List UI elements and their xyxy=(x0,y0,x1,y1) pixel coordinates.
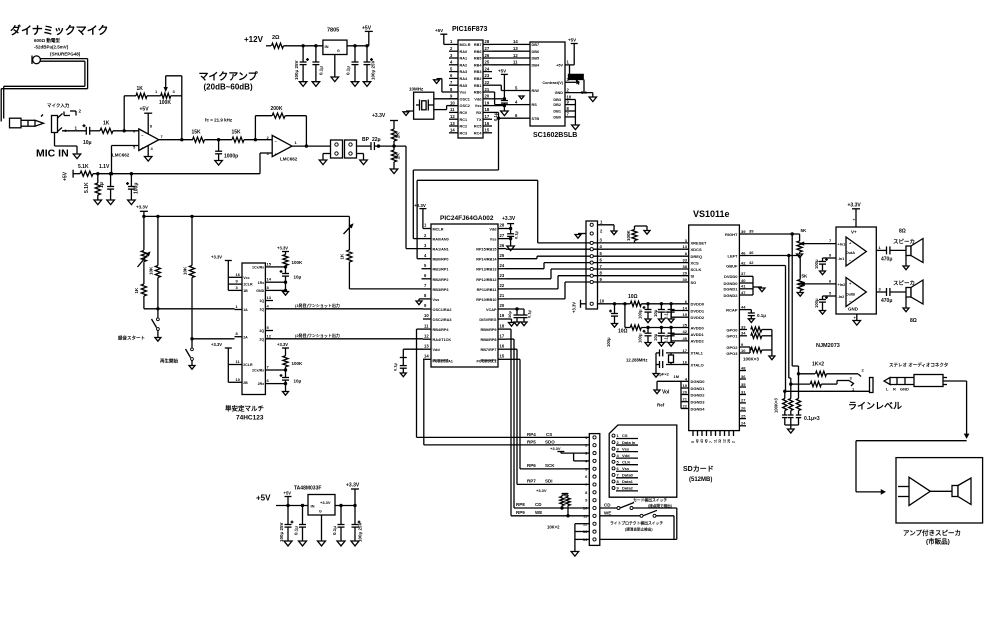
ground speaker A xyxy=(903,266,909,270)
wire OutA xyxy=(846,245,887,255)
svg-text:+3.3V: +3.3V xyxy=(536,488,547,493)
svg-text:100μ 25V: 100μ 25V xyxy=(371,60,376,80)
svg-text:34: 34 xyxy=(741,331,746,336)
svg-text:+In1: +In1 xyxy=(838,243,846,247)
svg-text:10Ω: 10Ω xyxy=(618,329,628,335)
svg-text:(512MB): (512MB) xyxy=(689,477,712,483)
svg-text:RB8/RP8: RB8/RP8 xyxy=(480,338,496,342)
ground cap out1 xyxy=(351,82,359,87)
wire jack to cap xyxy=(62,130,86,132)
resistor 10ohm DVDD xyxy=(628,294,641,306)
resistor 200K feedback xyxy=(271,106,286,118)
svg-text:RP8: RP8 xyxy=(516,502,525,507)
wire DVDD supply xyxy=(598,302,631,305)
svg-text:13: 13 xyxy=(424,343,429,348)
svg-text:1000p: 1000p xyxy=(224,154,238,160)
capacitor 100uF njm in2 xyxy=(814,291,844,311)
svg-text:再生開始: 再生開始 xyxy=(160,358,178,365)
svg-text:GND: GND xyxy=(900,387,909,392)
svg-text:38: 38 xyxy=(683,264,688,269)
svg-text:10Ω: 10Ω xyxy=(628,294,638,300)
capacitor 1000p xyxy=(215,140,238,161)
capacitor 470uF A xyxy=(881,246,906,262)
svg-text:OSC2: OSC2 xyxy=(460,104,470,108)
svg-text:21: 21 xyxy=(683,397,688,402)
svg-text:27: 27 xyxy=(485,46,490,51)
resistors 10Kx2 pullup xyxy=(536,488,570,530)
svg-text:fc = 21.9 kHz: fc = 21.9 kHz xyxy=(205,118,233,123)
svg-text:AVDD1: AVDD1 xyxy=(691,332,705,337)
svg-text:+5V: +5V xyxy=(256,494,271,503)
ground header J3 xyxy=(357,154,368,165)
svg-text:47: 47 xyxy=(741,290,746,295)
wire LCD DB3-DB0 to ground xyxy=(565,94,575,125)
svg-text:CD: CD xyxy=(604,503,611,508)
svg-text:CS: CS xyxy=(622,433,628,438)
svg-text:DB6: DB6 xyxy=(532,50,540,54)
svg-text:RB2: RB2 xyxy=(474,77,482,81)
svg-text:+3.3V: +3.3V xyxy=(136,205,148,210)
svg-text:39: 39 xyxy=(749,229,754,234)
svg-text:録音スタート: 録音スタート xyxy=(118,335,145,342)
svg-text:20: 20 xyxy=(500,303,505,308)
resistor 10K pullup1 xyxy=(149,216,161,310)
svg-text:10K: 10K xyxy=(183,266,188,275)
wire DGND bracket xyxy=(657,381,689,408)
svg-text:PGC3/SCL1: PGC3/SCL1 xyxy=(477,360,497,364)
resistors 100Kx3 GPO xyxy=(743,327,772,362)
svg-text:DVDD0: DVDD0 xyxy=(724,274,738,279)
svg-text:TX: TX xyxy=(477,118,482,122)
op-amp NJM B xyxy=(846,278,866,307)
svg-text:14: 14 xyxy=(267,277,272,282)
wire RB0 to LCD RS xyxy=(492,92,521,105)
ground divider xyxy=(390,169,398,174)
svg-text:RB7/RP7: RB7/RP7 xyxy=(480,348,496,352)
svg-text:+3.3V: +3.3V xyxy=(550,446,561,451)
svg-text:DVDD0: DVDD0 xyxy=(691,302,705,307)
svg-text:SO: SO xyxy=(691,280,697,285)
wire plug to amp box xyxy=(856,381,968,494)
capacitor 0.1uF RCAP xyxy=(747,310,766,319)
wire feedback mid xyxy=(147,89,161,96)
svg-text:1Rx: 1Rx xyxy=(258,281,265,285)
wire left line down xyxy=(789,256,793,386)
svg-text:GPO1: GPO1 xyxy=(726,334,738,339)
svg-text:STB: STB xyxy=(532,117,540,121)
svg-text:PIC24FJ64GA002: PIC24FJ64GA002 xyxy=(440,215,494,222)
svg-text:R: R xyxy=(893,387,896,392)
wire switch return xyxy=(600,538,677,540)
svg-text:+3.3V: +3.3V xyxy=(502,216,516,222)
svg-text:マイクアンプ: マイクアンプ xyxy=(199,70,259,83)
svg-text:RP15/RB15: RP15/RB15 xyxy=(476,248,496,252)
svg-text:100μ: 100μ xyxy=(638,333,643,343)
ground rc2 xyxy=(283,392,289,396)
power +3.3V reg output xyxy=(346,483,360,506)
svg-text:RA4/T1CK: RA4/T1CK xyxy=(433,338,452,342)
svg-text:10μ: 10μ xyxy=(653,333,658,341)
wire SPI bus RP10 xyxy=(506,282,689,299)
svg-text:DISVREG: DISVREG xyxy=(479,318,496,322)
svg-text:+3.3V: +3.3V xyxy=(320,500,331,505)
svg-text:26: 26 xyxy=(741,406,746,411)
connector header J2 xyxy=(331,140,343,158)
svg-text:0.1μ: 0.1μ xyxy=(346,66,351,75)
ground header J2 xyxy=(319,154,330,165)
svg-text:DB7: DB7 xyxy=(532,43,540,47)
power +3.3V conn pin10 xyxy=(572,300,587,313)
wire SCK to SD xyxy=(506,359,589,469)
svg-text:MIC IN: MIC IN xyxy=(36,148,69,160)
svg-text:RB7: RB7 xyxy=(474,43,482,47)
potentiometer 100K gain xyxy=(159,78,176,106)
resistor 2ohm xyxy=(272,35,284,48)
svg-text:25: 25 xyxy=(485,60,490,65)
svg-text:1Q: 1Q xyxy=(259,299,264,303)
wire LCD GND xyxy=(565,87,593,97)
potentiometer 5K right xyxy=(797,228,845,254)
op-amp U1b LMC662 xyxy=(267,135,298,162)
svg-text:WE: WE xyxy=(604,510,611,515)
svg-text:1K: 1K xyxy=(103,121,110,127)
ground reg in2 xyxy=(299,541,307,546)
svg-text:TA48M033F: TA48M033F xyxy=(294,486,321,492)
wire 1.1V rail xyxy=(93,164,260,175)
ground NJM xyxy=(853,314,861,325)
svg-text:RA0: RA0 xyxy=(460,50,468,54)
svg-text:RP6: RP6 xyxy=(527,463,536,468)
svg-text:RB4/RP4: RB4/RP4 xyxy=(433,328,450,332)
svg-text:100μ 25V: 100μ 25V xyxy=(294,60,299,80)
svg-text:2Ω: 2Ω xyxy=(272,35,280,41)
svg-text:0.1μ×3: 0.1μ×3 xyxy=(804,416,820,422)
resistor 1K divider bottom xyxy=(391,146,401,169)
svg-text:DREQ: DREQ xyxy=(691,254,703,259)
capacitor 0.1uF PIC16 xyxy=(492,101,508,122)
wire reg input xyxy=(276,504,308,507)
svg-text:1K: 1K xyxy=(134,287,139,294)
ground Vdd13 cap xyxy=(400,373,406,377)
svg-text:G: G xyxy=(337,49,340,53)
resistor 1K line L xyxy=(791,381,849,387)
ground LCD data xyxy=(572,125,580,130)
svg-text:1K: 1K xyxy=(137,86,144,92)
svg-text:ダイナミックマイク: ダイナミックマイク xyxy=(10,23,109,37)
svg-text:15: 15 xyxy=(267,261,272,266)
wire SPI bus RP12 xyxy=(506,269,689,279)
wire LEFT out xyxy=(747,250,800,257)
wire RB1 to LCD RW xyxy=(492,85,521,90)
ground supply cap xyxy=(612,324,618,328)
ground lineout xyxy=(788,429,795,433)
svg-text:RC2: RC2 xyxy=(460,125,468,129)
capacitor 0.1uF input xyxy=(312,46,323,82)
wire regulator output xyxy=(347,44,369,47)
capacitor 0.1uF output xyxy=(346,46,359,82)
svg-text:AVDD2: AVDD2 xyxy=(691,339,705,344)
svg-text:+3.3V: +3.3V xyxy=(346,483,360,489)
ic NJM2073 xyxy=(816,227,876,349)
stereo plug xyxy=(884,375,947,392)
svg-text:RB6: RB6 xyxy=(474,50,482,54)
svg-text:Vdd: Vdd xyxy=(433,348,441,352)
svg-text:Vdd: Vdd xyxy=(474,97,482,101)
svg-text:1K×2: 1K×2 xyxy=(812,362,824,368)
svg-text:NJM2073: NJM2073 xyxy=(816,343,840,349)
svg-text:100K: 100K xyxy=(292,260,304,265)
wire UART PIC16-PIC24 xyxy=(413,170,498,239)
svg-text:RC3: RC3 xyxy=(460,131,468,135)
wire SPI bus RP11 xyxy=(506,276,689,289)
svg-text:RB0: RB0 xyxy=(474,91,482,95)
resistor 10ohm AVDD xyxy=(618,325,641,335)
svg-text:DGND1: DGND1 xyxy=(723,287,738,292)
capacitor 0.1uF DVDD xyxy=(663,304,674,319)
power +5V PIC16 MCLR xyxy=(435,28,449,44)
power +5V PIC16 Vdd xyxy=(492,69,508,101)
svg-text:100K: 100K xyxy=(626,229,631,241)
svg-text:1CLR: 1CLR xyxy=(243,283,253,287)
svg-text:-In2: -In2 xyxy=(838,295,845,299)
resistor 1K feedback xyxy=(136,86,147,98)
wire WE to SD xyxy=(506,329,589,517)
capacitor 10uF input xyxy=(83,124,92,146)
resistor 1K divider top xyxy=(391,129,401,148)
wire opamp2 output xyxy=(292,144,331,147)
svg-text:Vss: Vss xyxy=(622,466,630,471)
ground conn pin2 xyxy=(575,234,586,239)
power +3.3V SD vdd xyxy=(550,446,589,461)
wire one-shot trigger2 xyxy=(192,338,235,340)
wire right line down xyxy=(792,234,800,375)
svg-text:OSC1: OSC1 xyxy=(460,97,470,101)
svg-text:RB2/RP2: RB2/RP2 xyxy=(433,278,449,282)
svg-text:2CLR: 2CLR xyxy=(243,363,253,367)
svg-text:GPO2: GPO2 xyxy=(726,345,738,350)
svg-text:+5V: +5V xyxy=(435,28,443,33)
svg-text:ステレオ オーディオコネクタ: ステレオ オーディオコネクタ xyxy=(889,362,949,369)
svg-text:RX: RX xyxy=(476,111,482,115)
svg-text:スピーカ: スピーカ xyxy=(893,279,915,287)
wire one-shot 1 to pin9 xyxy=(265,302,423,309)
ground speaker B xyxy=(903,308,909,312)
svg-text:10: 10 xyxy=(583,506,588,511)
svg-text:BP: BP xyxy=(362,137,370,143)
svg-text:26: 26 xyxy=(485,53,490,58)
wire sleeve line xyxy=(786,390,870,392)
svg-text:Data2: Data2 xyxy=(622,486,634,491)
svg-text:12: 12 xyxy=(450,114,455,119)
ground rc1 xyxy=(283,292,289,296)
power +3.3V 74HC top xyxy=(211,255,235,291)
svg-text:Vss: Vss xyxy=(622,446,630,451)
svg-text:45: 45 xyxy=(683,336,688,341)
svg-text:200K: 200K xyxy=(271,106,283,112)
op-amp U1a LMC662 xyxy=(112,129,164,158)
svg-text:G: G xyxy=(319,510,322,514)
ground 1000p xyxy=(215,161,223,166)
wire RP4 CS xyxy=(417,329,590,437)
svg-text:22: 22 xyxy=(500,283,505,288)
ground reg in1 xyxy=(284,541,292,546)
wire opamp1 noninv input bias xyxy=(112,146,139,174)
svg-text:1M: 1M xyxy=(674,374,680,379)
svg-text:1Cx/Rx: 1Cx/Rx xyxy=(252,266,264,270)
svg-text:10μ: 10μ xyxy=(294,379,302,384)
svg-text:RP9: RP9 xyxy=(516,510,525,515)
ground reg out1 xyxy=(337,541,345,546)
capacitor 470uF B xyxy=(881,288,906,304)
svg-text:35: 35 xyxy=(741,382,746,387)
svg-text:12: 12 xyxy=(513,53,518,58)
capacitor 100uF bias xyxy=(126,174,140,200)
capacitor 100uF 25V output xyxy=(364,46,376,82)
power +5V bias xyxy=(63,170,74,181)
svg-text:Data In: Data In xyxy=(622,440,636,445)
wire header to BP cap xyxy=(357,145,372,147)
svg-text:RP13/RB13: RP13/RB13 xyxy=(476,268,496,272)
svg-text:GPO0: GPO0 xyxy=(726,327,738,332)
ground cap out2 xyxy=(363,82,371,87)
ground lcd RW xyxy=(519,96,524,99)
wire AVDD branch xyxy=(625,304,630,328)
svg-text:15K: 15K xyxy=(192,130,202,136)
svg-text:12.288MHz: 12.288MHz xyxy=(626,358,647,363)
wire stub pin6 xyxy=(422,278,424,280)
svg-text:RP5: RP5 xyxy=(527,439,536,444)
svg-text:DGND3: DGND3 xyxy=(691,400,706,405)
svg-text:29: 29 xyxy=(683,271,688,276)
svg-text:18: 18 xyxy=(500,323,505,328)
capacitor 100uF njm in1 xyxy=(814,253,844,271)
svg-text:32: 32 xyxy=(718,439,722,443)
svg-text:10: 10 xyxy=(741,348,746,353)
svg-text:Vdd: Vdd xyxy=(622,453,630,458)
microphone symbol xyxy=(32,56,40,65)
svg-text:16: 16 xyxy=(500,343,505,348)
capacitor BP 22uF xyxy=(362,137,381,150)
svg-text:RA4: RA4 xyxy=(460,77,468,81)
mic plug P1 xyxy=(10,115,44,128)
resistor 100K pullup bus xyxy=(626,226,650,243)
ground GPO resistors xyxy=(769,356,775,360)
svg-text:+3.3V: +3.3V xyxy=(211,342,222,347)
svg-text:13: 13 xyxy=(267,295,272,300)
svg-text:+5V: +5V xyxy=(498,69,506,74)
wire AVDD node xyxy=(641,326,688,329)
ground 1uF xyxy=(107,200,115,205)
connector header J3 xyxy=(345,140,357,158)
svg-text:1K: 1K xyxy=(340,253,345,260)
wire OSC1 xyxy=(434,98,458,100)
svg-text:IN: IN xyxy=(311,504,315,509)
svg-text:(SHUREPG48): (SHUREPG48) xyxy=(50,52,81,57)
wire DB7 xyxy=(492,43,521,45)
svg-text:RB0/RP0: RB0/RP0 xyxy=(433,258,449,262)
capacitor 10uF DVDD xyxy=(653,304,665,319)
wire one-shot 2 to pin12 xyxy=(265,332,423,339)
wire conn pin1 ground xyxy=(598,225,618,235)
wire jack sleeve to ground xyxy=(55,133,78,155)
ic PIC16F873 xyxy=(449,26,492,138)
svg-text:RB1/RP1: RB1/RP1 xyxy=(433,268,449,272)
wire oneshot rail xyxy=(142,215,349,218)
svg-text:21: 21 xyxy=(500,293,505,298)
power +3.3V PIC24 MCLR xyxy=(414,203,426,229)
svg-text:19: 19 xyxy=(500,313,505,318)
svg-text:XCS: XCS xyxy=(691,260,700,265)
svg-text:+3.3V: +3.3V xyxy=(848,203,862,209)
resistor 15K second xyxy=(232,130,245,143)
svg-text:RB4: RB4 xyxy=(474,63,482,67)
svg-text:10μ: 10μ xyxy=(294,275,302,280)
svg-text:Ref: Ref xyxy=(657,403,665,408)
svg-text:10μ: 10μ xyxy=(653,309,658,317)
potentiometer 5K left xyxy=(798,256,846,293)
svg-text:42: 42 xyxy=(683,329,688,334)
svg-text:DB4: DB4 xyxy=(532,63,540,67)
svg-text:14: 14 xyxy=(450,128,455,133)
capacitor 100uF DVDD xyxy=(638,304,652,319)
svg-text:600Ω 動電型: 600Ω 動電型 xyxy=(34,37,60,44)
mic jack J1 xyxy=(47,102,70,133)
svg-text:22: 22 xyxy=(485,80,490,85)
wire R to opamp inverting input xyxy=(113,129,139,132)
svg-text:PGD3/SDA1: PGD3/SDA1 xyxy=(433,360,453,364)
trimmer chain rec xyxy=(138,251,150,285)
svg-text:(誤消去防止検出): (誤消去防止検出) xyxy=(625,527,653,532)
ground DVDD c1 xyxy=(645,319,651,323)
ground AVDD c3 xyxy=(668,343,674,347)
wire SPI bus RP13 xyxy=(506,263,689,269)
svg-text:MCLR: MCLR xyxy=(460,43,471,47)
svg-text:10: 10 xyxy=(450,100,455,105)
svg-text:24: 24 xyxy=(500,263,505,268)
svg-text:25: 25 xyxy=(683,323,688,328)
svg-text:10: 10 xyxy=(424,313,429,318)
svg-text:Vol: Vol xyxy=(662,390,670,396)
svg-text:10K×2: 10K×2 xyxy=(547,525,560,530)
svg-text:7805: 7805 xyxy=(327,28,339,34)
ground DGND xyxy=(654,390,660,394)
svg-text:XRESET: XRESET xyxy=(691,241,708,246)
svg-text:OutA: OutA xyxy=(846,251,856,255)
svg-text:18: 18 xyxy=(485,107,490,112)
svg-text:20: 20 xyxy=(683,390,688,395)
svg-text:DB3: DB3 xyxy=(553,98,561,102)
op-amp NJM A xyxy=(846,237,866,266)
svg-text:25: 25 xyxy=(500,253,505,258)
svg-text:+5V: +5V xyxy=(140,107,150,113)
svg-text:(接点閉で検出): (接点閉で検出) xyxy=(648,503,673,508)
svg-text:24: 24 xyxy=(741,421,746,426)
svg-text:RA2: RA2 xyxy=(460,63,468,67)
wire SD gnd pins xyxy=(575,524,589,552)
rc network oneshot1 xyxy=(273,246,303,293)
svg-text:5K: 5K xyxy=(801,228,808,233)
svg-text:1K: 1K xyxy=(396,153,402,160)
svg-text:SDO: SDO xyxy=(545,439,555,444)
wire RP0 to VS XRESET xyxy=(417,180,538,258)
capacitor 100uF reg out xyxy=(352,506,363,543)
power +5V LCD xyxy=(565,38,578,65)
wire SPI bus RP14 xyxy=(506,256,689,259)
svg-text:GND: GND xyxy=(555,91,564,95)
ground mic jack xyxy=(73,154,81,159)
svg-text:RA3: RA3 xyxy=(460,70,468,74)
speaker B xyxy=(893,279,923,324)
